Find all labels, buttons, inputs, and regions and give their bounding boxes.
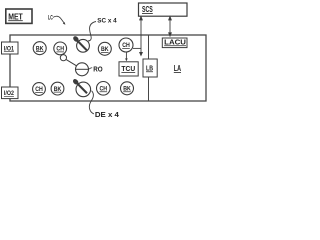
svg-text:TCU: TCU [121,64,135,73]
svg-text:LA: LA [174,64,181,73]
svg-text:RO: RO [93,64,103,73]
svg-text:BK: BK [36,46,44,52]
svg-text:CH: CH [56,47,64,53]
svg-text:CH: CH [100,87,108,93]
svg-text:SCS: SCS [142,5,153,14]
svg-text:BK: BK [101,47,109,53]
svg-text:LB: LB [146,63,153,72]
svg-text:I/O1: I/O1 [4,46,15,52]
svg-text:LC: LC [48,16,53,22]
svg-text:CH: CH [35,87,43,93]
svg-text:CH: CH [122,43,130,49]
svg-text:BK: BK [54,87,62,93]
svg-text:SC x 4: SC x 4 [97,19,117,25]
svg-text:I/O2: I/O2 [4,91,15,97]
svg-text:LACU: LACU [164,39,186,46]
svg-text:MET: MET [8,12,23,21]
svg-text:DE x 4: DE x 4 [95,112,119,119]
svg-text:BK: BK [123,87,131,93]
